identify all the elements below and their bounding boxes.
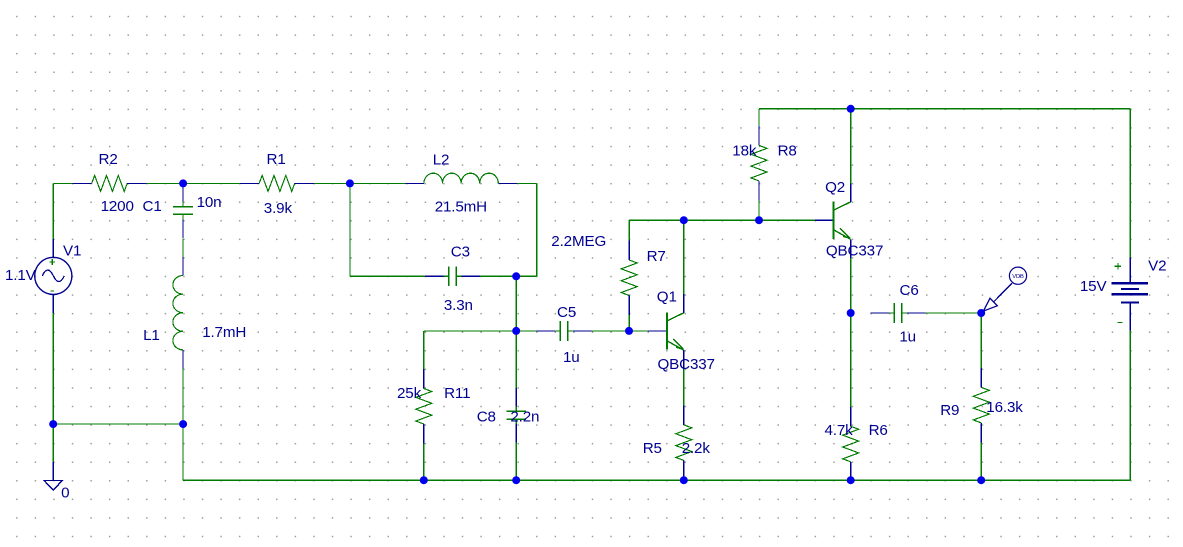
- svg-text:R2: R2: [99, 151, 118, 168]
- resistor R2: [72, 182, 91, 184]
- wire C8 bottom: [515, 443, 517, 481]
- node junction R11 bus: [420, 476, 428, 484]
- probe VDB marker: [1009, 267, 1026, 284]
- wire R11 bottom: [423, 443, 425, 480]
- svg-text:4.7k: 4.7k: [825, 422, 854, 439]
- node junction Q1 collector: [680, 216, 688, 224]
- node junction Q1 base: [625, 327, 633, 335]
- svg-text:3.9k: 3.9k: [264, 200, 293, 217]
- wire R1 to L2: [314, 182, 405, 184]
- node junction C6 right: [977, 309, 985, 317]
- wire Q2 emitter to R6: [850, 313, 852, 407]
- svg-text:0: 0: [61, 485, 69, 502]
- svg-text:15V: 15V: [1080, 278, 1108, 295]
- node junction R5 bus: [680, 476, 688, 484]
- resistor R7: [628, 220, 630, 240]
- resistor R9: [980, 368, 982, 387]
- wire R11 to C8 node: [424, 330, 516, 332]
- svg-text:C8: C8: [477, 409, 496, 426]
- wire C6 to R9: [925, 312, 981, 314]
- wire R11 top: [423, 331, 425, 369]
- node junction Q2 emitter: [847, 309, 855, 317]
- voltage source V1: [52, 239, 54, 257]
- node junction R6 bus: [847, 476, 855, 484]
- wire R2 to R1: [147, 182, 240, 184]
- wire V1-L1 bottom: [53, 423, 183, 425]
- svg-text:16.3k: 16.3k: [986, 399, 1023, 416]
- svg-text:Q2: Q2: [825, 179, 845, 196]
- svg-text:QBC337: QBC337: [658, 356, 715, 373]
- wire C3 left: [350, 275, 425, 277]
- wire Q1 emitter down: [683, 369, 685, 406]
- svg-text:R8: R8: [778, 143, 797, 160]
- node junction C3 output: [512, 272, 520, 280]
- svg-text:L1: L1: [143, 327, 160, 344]
- svg-text:2.2n: 2.2n: [510, 409, 539, 426]
- svg-text:C3: C3: [451, 244, 470, 261]
- resistor R8: [758, 109, 760, 126]
- svg-text:3.3n: 3.3n: [444, 297, 473, 314]
- node junction R9 bus: [977, 476, 985, 484]
- svg-text:21.5mH: 21.5mH: [435, 199, 487, 216]
- node junction R1-L2: [346, 179, 354, 187]
- wire bottom bus: [182, 424, 184, 480]
- resistor R6: [850, 407, 852, 426]
- resistor R1: [240, 182, 259, 184]
- transistor Q2: [815, 219, 834, 221]
- svg-text:1u: 1u: [563, 349, 580, 366]
- wire V1 top vertical: [52, 183, 54, 239]
- inductor L1: [182, 257, 184, 276]
- transistor Q1: [648, 330, 667, 332]
- wire Q2 collector up: [850, 109, 852, 184]
- svg-text:R1: R1: [267, 151, 286, 168]
- svg-text:18k: 18k: [732, 143, 757, 160]
- capacitor C1: [182, 183, 184, 202]
- voltage source V2 wire top: [1129, 109, 1131, 258]
- svg-text:R9: R9: [940, 402, 959, 419]
- node junction R2-C1: [179, 179, 187, 187]
- svg-text:V1: V1: [63, 243, 81, 260]
- wire V1 bottom: [52, 313, 54, 424]
- ground 0: [44, 481, 62, 491]
- node junction R8 bottom: [755, 216, 763, 224]
- capacitor C3: [425, 275, 444, 277]
- inductor L2: [405, 182, 424, 184]
- wire top rail: [759, 108, 1130, 110]
- svg-text:L2: L2: [433, 152, 450, 169]
- wire Q2 emitter down: [850, 258, 852, 313]
- svg-text:1.7mH: 1.7mH: [202, 324, 246, 341]
- wire C1 to L1: [182, 238, 184, 257]
- svg-text:10n: 10n: [197, 194, 222, 211]
- wire R9 bottom: [980, 442, 982, 480]
- wire Q1 collector up: [683, 220, 685, 294]
- svg-text:25k: 25k: [397, 385, 422, 402]
- svg-text:V2: V2: [1148, 258, 1166, 275]
- node junction C8 bus: [512, 476, 520, 484]
- wire L2 right corner: [517, 182, 537, 184]
- wire C3 node down: [515, 276, 517, 331]
- wire R9 top: [980, 313, 982, 368]
- capacitor C5: [537, 330, 556, 332]
- svg-text:Q1: Q1: [657, 289, 677, 306]
- svg-text:VDB: VDB: [1012, 274, 1024, 280]
- voltage source V2: [1129, 257, 1131, 282]
- svg-text:R7: R7: [647, 248, 666, 265]
- svg-text:1200: 1200: [101, 198, 134, 215]
- svg-text:1.1V: 1.1V: [5, 267, 37, 284]
- wire Q1 base: [629, 330, 648, 332]
- wire C5 to Q1 base node: [591, 330, 629, 332]
- svg-text:R11: R11: [444, 385, 470, 402]
- wire R7 top row: [629, 219, 815, 221]
- node junction Q2 collector top: [847, 105, 855, 113]
- wire V1 top to R2: [53, 182, 72, 184]
- svg-text:2.2k: 2.2k: [682, 440, 711, 457]
- wire to ground: [52, 424, 54, 462]
- wire L2 right vertical: [536, 183, 538, 276]
- wire V2 bottom: [1129, 331, 1131, 480]
- node junction L1 bottom: [179, 420, 187, 428]
- capacitor C6: [871, 312, 890, 314]
- wire C3 right: [480, 275, 537, 277]
- capacitor C8: [515, 331, 517, 388]
- svg-text:C1: C1: [143, 198, 162, 215]
- svg-text:1u: 1u: [899, 329, 916, 346]
- svg-text:C5: C5: [557, 304, 576, 321]
- svg-text:R6: R6: [869, 422, 888, 439]
- resistor R5: [683, 406, 685, 425]
- wire L1 to bottom node: [182, 369, 184, 425]
- node junction B down: [349, 183, 351, 276]
- svg-text:QBC337: QBC337: [826, 243, 883, 260]
- resistor R11: [423, 369, 425, 388]
- node junction V1 ground: [49, 420, 57, 428]
- svg-text:R5: R5: [643, 440, 662, 457]
- svg-text:2.2MEG: 2.2MEG: [551, 233, 606, 250]
- svg-text:C6: C6: [900, 282, 919, 299]
- node junction C8 top: [512, 327, 520, 335]
- wire C8 node to C5: [516, 330, 536, 332]
